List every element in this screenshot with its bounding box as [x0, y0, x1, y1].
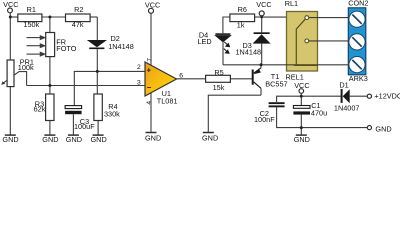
svg-text:GND: GND [66, 135, 82, 142]
svg-text:RL1: RL1 [285, 0, 298, 8]
svg-text:R5: R5 [214, 68, 223, 77]
svg-text:R1: R1 [27, 5, 36, 14]
svg-text:VCC: VCC [256, 0, 271, 9]
svg-text:R2: R2 [74, 5, 83, 14]
svg-text:4: 4 [146, 101, 153, 105]
svg-text:470u: 470u [311, 108, 327, 117]
svg-text:GND: GND [294, 135, 310, 142]
svg-text:330k: 330k [104, 109, 120, 118]
svg-text:GND: GND [145, 133, 161, 142]
svg-text:+: + [147, 66, 152, 75]
svg-text:100uF: 100uF [74, 122, 95, 131]
svg-text:GND: GND [42, 135, 58, 142]
svg-text:47k: 47k [72, 20, 84, 29]
svg-text:D1: D1 [339, 80, 348, 89]
svg-text:VCC: VCC [294, 81, 309, 90]
svg-text:7: 7 [147, 58, 154, 62]
svg-text:CON2: CON2 [348, 0, 368, 8]
svg-text:FOTO: FOTO [56, 44, 76, 53]
svg-text:BC557: BC557 [265, 79, 287, 88]
svg-text:LED: LED [198, 37, 212, 46]
svg-text:GND: GND [2, 135, 18, 142]
svg-text:6: 6 [179, 72, 183, 79]
svg-text:3: 3 [137, 80, 141, 87]
svg-text:15k: 15k [213, 83, 225, 92]
svg-text:150k: 150k [23, 20, 39, 29]
svg-text:1N4007: 1N4007 [334, 104, 360, 113]
svg-text:1N4148: 1N4148 [108, 42, 134, 51]
svg-text:1N4148: 1N4148 [236, 47, 262, 56]
svg-text:2: 2 [137, 64, 141, 71]
svg-text:ARK3: ARK3 [349, 74, 368, 83]
svg-text:62k: 62k [34, 105, 46, 114]
svg-text:1k: 1k [237, 21, 245, 30]
svg-text:100k: 100k [18, 63, 34, 72]
svg-text:+12VDC: +12VDC [374, 92, 400, 101]
svg-text:VCC: VCC [3, 0, 18, 9]
svg-text:GND: GND [91, 135, 107, 142]
svg-text:−: − [147, 83, 152, 92]
svg-text:100nF: 100nF [254, 115, 275, 124]
svg-text:GND: GND [375, 124, 391, 133]
svg-text:TL081: TL081 [157, 97, 178, 106]
svg-text:VCC: VCC [145, 1, 160, 10]
svg-text:GND: GND [202, 133, 218, 142]
svg-text:R6: R6 [238, 5, 247, 14]
